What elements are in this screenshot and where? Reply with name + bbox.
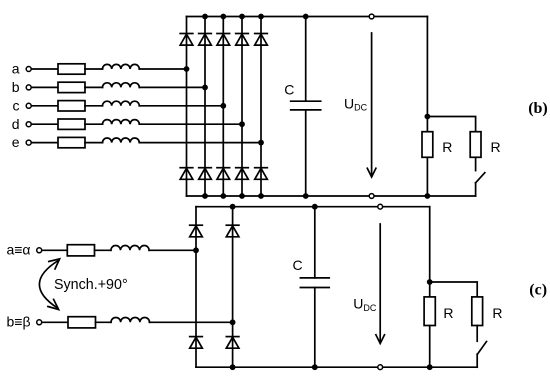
wire: R1 to bottom bus (c) [429, 326, 431, 368]
terminal: DC- output (c) [378, 365, 383, 370]
label: Synch.+90° [54, 277, 128, 293]
terminal: DC+ output (b) [369, 14, 374, 19]
node: R1 bottom junction (b) [425, 193, 431, 199]
wire: input d to resistor [32, 123, 58, 125]
wire: bridge leg 2 of figure (b) [204, 17, 206, 197]
wire: inductor to bridge node (phase c) [139, 105, 223, 107]
inductor (phase a series) [103, 64, 140, 69]
wire: resistor to inductor (phase a) [85, 68, 103, 70]
inductor (phase e series) [103, 138, 140, 143]
node: phase e junction on leg 5 [258, 140, 264, 146]
resistor (phase c series) [58, 101, 85, 111]
diode D6 (lower, leg 1, figure b) [180, 168, 193, 180]
node: leg 5 on bottom bus (b) [258, 193, 264, 199]
node: leg beta on top bus (c) [230, 204, 236, 210]
wire: top DC+ bus of figure (c) [196, 206, 430, 208]
wire: resistor to inductor (phase c) [85, 105, 103, 107]
svg-text:UDC: UDC [344, 95, 368, 112]
label: U_DC (figure b) [344, 95, 368, 112]
wire: terminal to resistor (a≡α) [42, 249, 67, 251]
terminal (input a≡α) [37, 248, 42, 253]
label: phase c [13, 97, 20, 113]
node: b≡β junction on leg beta [230, 319, 236, 325]
diode D3 (upper, leg 3, figure b) [217, 34, 230, 46]
wire: resistor to inductor (a≡α) [95, 249, 111, 251]
wire: bridge leg 4 of figure (b) [241, 17, 243, 197]
node: load branch split top (c) [427, 279, 433, 285]
node: leg 4 on top bus (b) [239, 14, 245, 20]
diode D10 (lower, leg 5, figure b) [255, 168, 268, 180]
wire: inductor to bridge node (phase b) [139, 86, 205, 88]
svg-text:R: R [442, 139, 452, 155]
wire: capacitor branch lower (c) [314, 288, 316, 368]
wire: input a to resistor [32, 68, 58, 70]
wire: junction to resistor R1 (c) [429, 282, 431, 297]
node: leg 2 on bottom bus (b) [202, 193, 208, 199]
diode D2c (upper, leg beta, figure c) [226, 225, 239, 237]
node: phase d junction on leg 4 [239, 121, 245, 127]
wire: input b to resistor [32, 86, 58, 88]
wire: terminal to resistor (b≡β) [42, 321, 68, 323]
wire: capacitor branch upper (b) [305, 17, 307, 102]
wire: bridge leg 3 of figure (b) [222, 17, 224, 197]
wire: top bus corner down to load junction (c) [429, 207, 431, 282]
resistor (phase b series) [58, 82, 85, 92]
node: capacitor top junction (b) [303, 14, 309, 20]
wire: branch to switched resistor (c) [430, 282, 478, 297]
wire: branch to switched resistor (b) [427, 117, 475, 132]
label: input a≡α [6, 242, 30, 258]
arrow: U_DC voltage direction (c) [376, 224, 385, 344]
terminal: DC- output (b) [369, 194, 374, 199]
inductor (b≡β series) [111, 317, 150, 322]
svg-text:b: b [12, 79, 20, 95]
wire: top bus corner down to load junction (b) [426, 17, 428, 117]
resistor (a≡α series) [67, 245, 94, 256]
wire: capacitor branch lower (b) [305, 110, 307, 196]
node: phase c junction on leg 3 [220, 103, 226, 109]
svg-text:(c): (c) [529, 281, 547, 298]
diode D4 (upper, leg 4, figure b) [236, 34, 249, 46]
wire: input e to resistor [32, 142, 58, 144]
wire: inductor to bridge node (phase d) [139, 123, 242, 125]
svg-text:c: c [13, 97, 20, 113]
resistor (b≡β series) [68, 317, 96, 328]
svg-text:R: R [443, 305, 453, 321]
wire: bridge leg alpha of figure (c) [195, 207, 197, 368]
wire: R1 to bottom bus (b) [426, 157, 428, 196]
node: phase b junction on leg 2 [202, 85, 208, 91]
diode D9 (lower, leg 4, figure b) [236, 168, 249, 180]
node: phase a junction on leg 1 [184, 66, 190, 72]
wire: R2 to switch contact (b) [475, 157, 477, 170]
svg-text:UDC: UDC [353, 295, 377, 312]
svg-text:R: R [491, 139, 501, 155]
inductor (phase d series) [103, 120, 140, 125]
label: input b≡β [6, 314, 30, 330]
wire: resistor to inductor (b≡β) [96, 321, 112, 323]
resistor R (switched load, figure b) [470, 132, 481, 158]
inductor (phase c series) [103, 101, 140, 106]
svg-text:d: d [12, 116, 20, 132]
node: R1 bottom junction (c) [427, 364, 433, 370]
wire: inductor to bridge node (phase a) [139, 68, 186, 70]
wire: bottom DC- bus of figure (b) [187, 195, 476, 197]
node: a≡α junction on leg alpha [193, 247, 199, 253]
node: leg 4 on bottom bus (b) [239, 193, 245, 199]
resistor (phase d series) [58, 119, 85, 129]
svg-text:R: R [492, 305, 502, 321]
wire: bridge leg 1 of figure (b) [186, 17, 188, 197]
resistor R (left load, figure b) [422, 132, 433, 158]
label: subfigure (c) [529, 281, 547, 298]
label: subfigure (b) [528, 100, 548, 117]
wire: bridge leg 5 of figure (b) [260, 17, 262, 197]
terminal (input b) [26, 85, 31, 90]
wire: switch to bottom bus (b) [475, 183, 477, 196]
wire: switch to bottom bus (c) [476, 354, 478, 367]
wire: inductor to bridge node (phase e) [139, 142, 261, 144]
diode D2 (upper, leg 2, figure b) [199, 34, 212, 46]
label: R (left load, figure c) [443, 305, 453, 321]
terminal (input e) [26, 140, 31, 145]
svg-text:e: e [12, 134, 20, 150]
wire: junction to resistor R1 (b) [426, 117, 428, 132]
label: phase e [12, 134, 20, 150]
wire: input c to resistor [32, 105, 58, 107]
node: load branch split top (b) [425, 114, 431, 120]
arrow: U_DC voltage direction (b) [367, 33, 376, 177]
svg-text:C: C [293, 257, 303, 273]
svg-text:a≡α: a≡α [6, 242, 30, 258]
svg-text:a: a [12, 61, 20, 77]
terminal (input b≡β) [37, 320, 42, 325]
diode D5 (upper, leg 5, figure b) [255, 34, 268, 46]
capacitor C (figure b) [291, 101, 321, 110]
label: C value (figure c) [293, 257, 303, 273]
node: leg beta on bottom bus (c) [230, 364, 236, 370]
switch S (load disconnect, figure c) [477, 342, 486, 355]
wire: resistor to inductor (phase b) [85, 86, 103, 88]
wire: resistor to inductor (phase e) [85, 142, 103, 144]
terminal (input d) [26, 122, 31, 127]
resistor (phase a series) [58, 64, 85, 74]
terminal: DC+ output (c) [378, 204, 383, 209]
label: R (switched load, figure c) [492, 305, 502, 321]
svg-text:C: C [284, 82, 294, 98]
inductor (phase b series) [103, 83, 140, 88]
wire: top DC+ bus of figure (b) [187, 16, 428, 18]
node: leg 3 on top bus (b) [220, 14, 226, 20]
node: capacitor bottom junction (b) [303, 193, 309, 199]
capacitor C (figure c) [300, 278, 329, 288]
label: C value (figure b) [284, 82, 294, 98]
svg-text:b≡β: b≡β [6, 314, 30, 330]
wire: R2 to switch contact (c) [476, 326, 478, 342]
diode D1c (upper, leg alpha, figure c) [190, 225, 203, 237]
label: phase a [12, 61, 20, 77]
diode D4c (lower, leg beta, figure c) [226, 337, 239, 349]
diode D1 (upper, leg 1, figure b) [180, 34, 193, 46]
node: capacitor top junction (c) [312, 204, 318, 210]
arrow: synchronization phase-shift arc [39, 259, 59, 310]
diode D3c (lower, leg alpha, figure c) [190, 337, 203, 349]
resistor R (switched load, figure c) [472, 297, 483, 326]
label: phase d [12, 116, 20, 132]
label: R (switched load, figure b) [491, 139, 501, 155]
wire: bridge leg beta of figure (c) [232, 207, 234, 368]
svg-text:(b): (b) [528, 100, 548, 117]
wire: bottom DC- bus of figure (c) [196, 366, 477, 368]
wire: inductor to bridge (b≡β) [150, 321, 233, 323]
wire: resistor to inductor (phase d) [85, 123, 103, 125]
diode D8 (lower, leg 3, figure b) [217, 168, 230, 180]
switch S (load disconnect, figure b) [476, 173, 485, 183]
terminal (input a) [26, 67, 31, 72]
diode D7 (lower, leg 2, figure b) [199, 168, 212, 180]
resistor (phase e series) [58, 137, 85, 147]
inductor (a≡α series) [111, 246, 149, 251]
node: leg 3 on bottom bus (b) [220, 193, 226, 199]
wire: inductor to bridge (a≡α) [149, 249, 196, 251]
label: phase b [12, 79, 20, 95]
node: leg 2 on top bus (b) [202, 14, 208, 20]
resistor R (left load, figure c) [424, 297, 435, 326]
terminal (input c) [26, 103, 31, 108]
label: R (left load, figure b) [442, 139, 452, 155]
wire: capacitor branch upper (c) [314, 207, 316, 278]
node: capacitor bottom junction (c) [312, 364, 318, 370]
node: leg 5 on top bus (b) [258, 14, 264, 20]
svg-text:Synch.+90°: Synch.+90° [54, 277, 128, 293]
label: U_DC (figure c) [353, 295, 377, 312]
